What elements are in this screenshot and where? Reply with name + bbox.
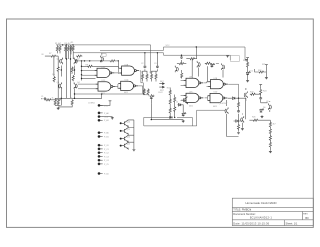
wire q9 emitter	[245, 98, 247, 119]
resistor R17	[142, 74, 144, 80]
resistor R16 horizontal	[110, 60, 116, 62]
svg-text:Q9: Q9	[266, 101, 269, 103]
transistor Q3	[59, 82, 62, 89]
resistor R31	[237, 124, 239, 130]
ground GND1	[57, 107, 60, 110]
wire U2A out	[204, 82, 208, 83]
resistor R13	[54, 99, 56, 105]
svg-text:Q1: Q1	[57, 59, 60, 61]
title block row line 1	[232, 206, 313, 208]
svg-text:4k7: 4k7	[273, 124, 276, 126]
wire bottom bus	[55, 98, 74, 107]
wire riser to G3	[197, 110, 226, 126]
junction dot set	[74, 93, 75, 94]
net arrow in B	[159, 86, 164, 88]
svg-text:P_C3: P_C3	[104, 156, 109, 158]
svg-text:C1: C1	[41, 96, 43, 98]
svg-text:TITLE: PMBClk: TITLE: PMBClk	[233, 208, 252, 212]
middle labels	[141, 63, 179, 103]
nand gate U1B	[119, 66, 139, 75]
wire Q5 to rail	[101, 53, 103, 62]
svg-text:Q3: Q3	[57, 82, 60, 84]
power VCC3	[246, 58, 249, 60]
driver labels	[127, 121, 131, 145]
resistor R22	[147, 89, 149, 95]
wire r8 down	[57, 72, 59, 98]
resistor R14	[57, 99, 59, 105]
wire q8	[227, 100, 239, 137]
wire rail VCC top left	[56, 45, 151, 74]
wire U1C out to U1D in	[115, 84, 118, 88]
gate labels	[101, 64, 129, 94]
svg-text:R3 4k7: R3 4k7	[65, 43, 71, 45]
svg-text:U1D: U1D	[125, 80, 129, 82]
svg-text:B0: B0	[305, 216, 309, 220]
transistor Q12	[175, 66, 178, 73]
svg-text:P_B1: P_B1	[104, 136, 109, 138]
wire Q1 collector chain	[60, 66, 62, 77]
led LED2	[246, 71, 250, 75]
svg-text:Date: 11/05/2013 10:15:36: Date: 11/05/2013 10:15:36	[233, 221, 269, 225]
resistor R12 input	[46, 99, 52, 101]
resistor chain R23	[169, 90, 171, 96]
transistor Q8	[225, 107, 228, 114]
nand gate U1C	[96, 82, 116, 91]
title block outline	[232, 198, 313, 225]
svg-text:P_A0: P_A0	[104, 112, 109, 115]
wire vcc6	[99, 102, 110, 105]
resistor R34 horizontal	[250, 93, 256, 95]
wire rail mid B	[73, 53, 230, 60]
component box label	[102, 54, 106, 57]
resistor R1	[56, 45, 58, 51]
wire r28	[186, 58, 197, 60]
svg-text:P_C4: P_C4	[104, 160, 109, 162]
pin P8	[98, 148, 103, 150]
pin P12	[98, 163, 103, 165]
svg-text:U2D: U2D	[214, 92, 218, 94]
pin P3	[98, 116, 103, 118]
resistor R19	[151, 74, 153, 80]
wire U1A inputs	[82, 71, 95, 76]
svg-text:R5: R5	[71, 42, 73, 44]
wire d5 out	[228, 97, 246, 99]
pin P5	[98, 132, 103, 134]
wire U1B out	[140, 71, 149, 96]
wire U1A out	[114, 72, 118, 74]
resistor R44	[269, 142, 271, 148]
svg-text:4011: 4011	[213, 106, 217, 108]
transistor Q5	[100, 56, 103, 63]
svg-text:Q2: Q2	[77, 59, 80, 61]
resistor R41 horizontal	[178, 63, 184, 65]
wire caps2	[177, 55, 186, 72]
svg-text:$CLKNAND12-1: $CLKNAND12-1	[250, 216, 272, 220]
transistor QG3 diagonal	[181, 97, 188, 104]
wire bus to gates	[81, 61, 83, 81]
resistor R42	[181, 72, 183, 78]
resistor R20	[155, 74, 157, 80]
wire U1B in top	[117, 69, 120, 74]
svg-text:P_C1: P_C1	[104, 149, 109, 151]
pin P1	[98, 104, 103, 106]
nand gate U2C	[184, 93, 204, 102]
svg-text:R22: R22	[258, 70, 261, 72]
title block REV divider	[302, 211, 304, 219]
resistor R28 horizontal	[189, 58, 195, 60]
wire chain3	[260, 86, 262, 103]
resistor R18	[146, 74, 148, 80]
transistor Q11	[241, 116, 244, 123]
resistor R15	[71, 99, 73, 105]
ground GND9	[111, 117, 114, 120]
nand gate U2B	[208, 80, 228, 89]
resistor R6	[72, 45, 74, 51]
junction dot	[118, 60, 119, 61]
junction dot d5	[238, 98, 239, 99]
resistor R21	[143, 89, 145, 95]
resistor R35	[260, 89, 262, 95]
junction dot c5	[181, 55, 182, 56]
wire mid bottom	[151, 103, 183, 119]
resistor chain R26	[174, 97, 176, 103]
wire q10	[261, 101, 270, 112]
wire chain	[234, 98, 244, 131]
wire gate feed row1	[82, 66, 119, 68]
junction dot rail196	[196, 46, 197, 47]
wire resistor bottoms to transistors	[57, 51, 73, 59]
wire rail gate feed	[75, 60, 119, 62]
wire set line	[75, 94, 145, 98]
wire chains	[170, 88, 175, 118]
transistor QD1	[122, 120, 129, 127]
resistor R2	[59, 45, 61, 51]
wire chain2	[255, 66, 267, 76]
title block sheet divider	[283, 220, 285, 226]
resistor R38	[269, 128, 271, 134]
transistor Q1	[60, 58, 63, 65]
svg-text:R20: R20	[243, 60, 246, 62]
pin P10	[98, 155, 103, 157]
wire U2B in	[207, 86, 209, 88]
ground GND3	[237, 131, 240, 134]
svg-text:Q8 BC547: Q8 BC547	[219, 103, 228, 105]
wire rail mid A	[100, 47, 248, 59]
wire q9-r34	[246, 88, 261, 101]
svg-text:CONN1: CONN1	[88, 103, 95, 105]
pin P13	[98, 172, 103, 174]
resistor R39	[269, 135, 271, 141]
transistor QD2	[122, 127, 129, 134]
svg-text:D6: D6	[263, 107, 265, 109]
nand gate U1A	[95, 68, 115, 77]
resistor R43 horizontal	[76, 55, 82, 57]
power VCC4	[265, 65, 268, 67]
svg-text:GND: GND	[104, 117, 109, 119]
ground GND2	[182, 120, 185, 123]
svg-text:R26: R26	[252, 117, 255, 119]
wire gate feed row4	[82, 77, 96, 79]
svg-text:CLK2: CLK2	[158, 92, 163, 94]
wire U2C inputs	[181, 96, 184, 101]
wire led	[150, 94, 152, 103]
wire U2B out	[228, 84, 238, 98]
capacitor C2	[144, 65, 147, 68]
transistor Q7	[222, 63, 225, 70]
svg-text:VCC: VCC	[166, 45, 171, 47]
resistor R9	[71, 67, 73, 73]
diode D1 horizontal	[178, 104, 182, 107]
svg-text:R7: R7	[49, 53, 51, 55]
capacitor C3	[156, 65, 159, 68]
ground GND10	[132, 148, 135, 151]
resistor chain R30	[237, 102, 239, 108]
power VCC2	[245, 60, 248, 62]
ground GND5	[265, 76, 268, 79]
svg-text:R15: R15	[167, 88, 170, 90]
transistor QD4	[122, 142, 129, 149]
svg-text:4011: 4011	[189, 105, 193, 107]
resistor R10	[53, 76, 55, 82]
svg-text:Q11: Q11	[127, 129, 130, 131]
svg-text:R8: R8	[86, 64, 88, 66]
pin dot QD3	[120, 138, 122, 140]
resistor R33 horizontal	[258, 71, 264, 73]
svg-text:1k: 1k	[176, 102, 178, 104]
nand gate U2A	[184, 78, 204, 87]
wire left column	[53, 56, 55, 76]
svg-text:Q13: Q13	[127, 144, 131, 146]
resistor R40 horizontal	[87, 65, 93, 67]
svg-text:Sheet: 1/1: Sheet: 1/1	[286, 221, 298, 225]
svg-text:R24: R24	[263, 91, 266, 93]
svg-text:P_C2: P_C2	[104, 153, 109, 155]
transistor Q2	[74, 58, 77, 65]
capacitor C1 input	[44, 97, 47, 100]
title block row line 3	[232, 219, 313, 221]
wire resistor row verticals	[143, 69, 158, 81]
wire U2A inputs	[181, 81, 184, 86]
diode D6	[260, 109, 264, 113]
svg-text:Q12: Q12	[127, 137, 131, 139]
resistor R37	[269, 122, 271, 128]
transistor Q6	[197, 61, 200, 68]
power VCC5	[259, 85, 262, 87]
resistor R4	[67, 45, 69, 51]
svg-text:R1 4k7: R1 4k7	[55, 43, 61, 45]
wire r chain	[269, 120, 271, 150]
wire common collector	[128, 120, 134, 148]
svg-text:10k: 10k	[52, 74, 55, 76]
wire loop left end	[143, 117, 145, 126]
svg-text:Q10: Q10	[127, 121, 131, 123]
svg-text:VCC: VCC	[104, 105, 109, 107]
wire chain1	[247, 59, 249, 79]
wire input bottom	[41, 89, 75, 106]
svg-text:R23: R23	[250, 92, 253, 94]
ground GND8	[269, 150, 272, 153]
diode D2 vertical	[182, 112, 186, 116]
resistor chain R25	[169, 108, 171, 114]
pin P9	[98, 152, 103, 154]
diode D7 horizontal	[235, 120, 239, 123]
resistor R36 horizontal	[252, 119, 258, 121]
svg-text:1k: 1k	[52, 97, 54, 99]
resistor chain R27	[174, 106, 176, 112]
resistor R5	[70, 45, 72, 51]
pin dot QD1	[120, 122, 122, 124]
net arrow in A	[159, 83, 164, 85]
junction dots loop	[151, 117, 176, 121]
pin P7	[98, 144, 103, 146]
capacitor C4	[259, 97, 262, 100]
wire U2C out to U2D	[205, 96, 208, 101]
transistor Q10	[268, 103, 271, 110]
svg-text:LD1: LD1	[250, 71, 253, 73]
resistor R3	[64, 45, 66, 51]
svg-text:R9: R9	[141, 72, 143, 74]
right labels	[243, 60, 276, 126]
wire pin3 to gnd	[102, 116, 112, 118]
pin P6	[98, 135, 103, 137]
pin P11	[98, 159, 103, 161]
ground GND7	[241, 128, 244, 131]
transistor QD3	[122, 135, 129, 142]
svg-text:P_D0: P_D0	[104, 173, 109, 175]
nand gate U2D	[208, 93, 228, 102]
svg-text:U2C: U2C	[189, 92, 193, 94]
wire q11	[242, 114, 270, 128]
svg-text:P_A1: P_A1	[104, 119, 109, 122]
wire loop bottom	[144, 125, 197, 127]
svg-text:C3: C3	[154, 63, 156, 65]
wire drop to gate B	[117, 61, 119, 69]
wire U1C inputs	[78, 84, 96, 89]
wire input left	[45, 56, 58, 66]
wire cross coupling A	[67, 45, 71, 99]
right gate labels	[189, 76, 218, 108]
capacitor C7	[237, 110, 240, 113]
wire U1D out	[138, 86, 143, 94]
resistor chain R24	[169, 99, 171, 105]
svg-text:R21: R21	[262, 64, 265, 66]
wire Q2 collector chain	[74, 66, 76, 76]
junction dot row4	[81, 78, 82, 79]
pin P4	[98, 119, 103, 121]
left block tiny labels	[41, 42, 88, 99]
led LED1	[150, 95, 154, 99]
capacitor C5	[180, 56, 183, 59]
resistor R7 horizontal input	[50, 55, 56, 57]
junction dots rail	[62, 44, 64, 46]
diode D4	[211, 63, 215, 67]
pin P2	[98, 112, 103, 114]
svg-text:Homemade Clock NAND: Homemade Clock NAND	[246, 201, 277, 205]
pin dot QD4	[120, 145, 122, 147]
diode D3 on loop	[169, 116, 173, 119]
svg-text:P_C0: P_C0	[104, 145, 109, 147]
ground GND6	[261, 115, 264, 118]
wire top right block	[192, 47, 227, 82]
svg-text:C2: C2	[141, 63, 143, 65]
junction dot y61	[75, 60, 76, 61]
resistor R11	[72, 75, 74, 81]
svg-text:P_B0: P_B0	[104, 133, 109, 135]
svg-text:P_C5: P_C5	[104, 164, 109, 166]
svg-text:4011: 4011	[101, 93, 105, 95]
wire resistor tops	[57, 44, 73, 47]
svg-text:4011: 4011	[124, 92, 128, 94]
wire loop top	[144, 116, 193, 118]
svg-text:REV: REV	[303, 213, 308, 215]
pin labels	[88, 103, 109, 176]
component box B2	[230, 56, 239, 62]
nand gate U1D	[118, 81, 138, 90]
wire loop right end	[191, 117, 193, 126]
svg-text:R11: R11	[150, 72, 153, 74]
pin dot QD2	[120, 130, 122, 132]
junction dots left block	[61, 58, 83, 99]
diode D5	[232, 97, 236, 100]
power VCC1	[226, 56, 229, 58]
junction dots caps	[144, 52, 145, 53]
svg-text:U1C: U1C	[102, 80, 106, 82]
ground GND4	[246, 79, 249, 82]
resistor R8	[57, 66, 59, 72]
svg-text:10k: 10k	[70, 73, 73, 75]
power VCC6	[109, 101, 112, 103]
resistor R29 horizontal	[205, 62, 211, 64]
title block row line 2	[232, 210, 313, 212]
svg-text:1k: 1k	[70, 97, 72, 99]
transistor Q9	[244, 91, 247, 98]
wire caps top	[145, 53, 158, 65]
svg-text:Document Number:: Document Number:	[233, 212, 256, 216]
transistor Q4	[74, 82, 77, 89]
resistor R32	[247, 62, 249, 68]
